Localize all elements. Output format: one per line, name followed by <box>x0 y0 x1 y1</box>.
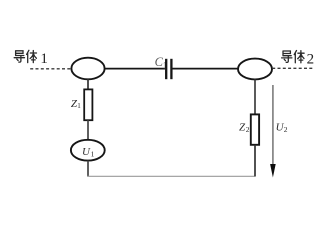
impedance Z1 (rectangle) <box>84 89 92 120</box>
wire: dashed lead to conductor 2 <box>272 67 314 69</box>
wire: left branch, node A down to Z1 <box>87 79 89 89</box>
svg-text:2: 2 <box>246 125 250 134</box>
node A: conductor 1 electrode (ellipse) <box>71 58 104 80</box>
wire: left branch, U1 down to bottom rail <box>87 161 89 177</box>
impedance Z2 (rectangle) <box>251 114 259 144</box>
source U1 (ellipse) <box>71 140 105 161</box>
wire: left branch, Z1 down to U1 <box>87 120 89 140</box>
svg-text:2: 2 <box>284 125 288 134</box>
svg-text:1: 1 <box>91 150 95 159</box>
wire: top right segment (C1 to node B) <box>173 68 239 70</box>
svg-text:1: 1 <box>40 51 48 67</box>
voltage arrow U2 (head) <box>270 164 276 178</box>
svg-text:1: 1 <box>77 102 81 110</box>
wire: top left segment (node A to C1) <box>105 68 166 70</box>
wire: bottom return rail <box>87 175 255 177</box>
capacitor C1 (two plates) <box>166 59 171 79</box>
wire: dashed lead to conductor 1 <box>30 68 71 70</box>
wire: right branch, node B down to Z2 <box>254 79 256 114</box>
svg-text:2: 2 <box>307 52 315 68</box>
node B: conductor 2 electrode (ellipse) <box>238 59 272 80</box>
node label 导体1 (conductor 1) <box>14 50 36 62</box>
node label 导体2 (conductor 2) <box>282 51 305 63</box>
wire: right branch, Z2 down to bottom rail <box>254 145 256 177</box>
voltage arrow U2 (shaft) <box>272 85 274 165</box>
